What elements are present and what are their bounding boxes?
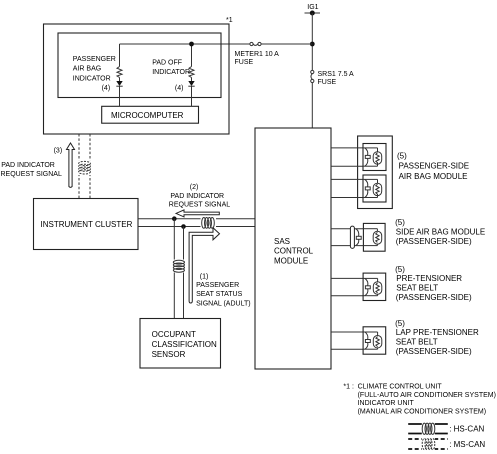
svg-text:: HS-CAN: : HS-CAN [449,425,484,434]
svg-text:REQUEST SIGNAL: REQUEST SIGNAL [1,171,62,178]
svg-text:INDICATOR: INDICATOR [73,75,111,82]
wire IG1 vertical feed [311,13,313,128]
svg-text:PAD OFF: PAD OFF [152,59,182,66]
svg-text:SENSOR: SENSOR [152,350,186,359]
svg-text:INDICATOR UNIT: INDICATOR UNIT [358,400,415,407]
label passenger-side air bag module [397,151,469,181]
label pre-tensioner seat belt [395,265,472,302]
svg-text:INDICATOR: INDICATOR [152,69,190,76]
svg-text:SEAT STATUS: SEAT STATUS [196,291,242,298]
svg-text:(PASSENGER-SIDE): (PASSENGER-SIDE) [396,237,472,246]
wire SAS to squib1 bottom [331,165,363,167]
node IG1 label [307,4,318,11]
label (2) PAD INDICATOR REQUEST SIGNAL [169,184,230,209]
wire SAS to pre-tensioner bottom [331,295,363,297]
svg-text:(5): (5) [395,218,405,227]
svg-text:(PASSENGER-SIDE): (PASSENGER-SIDE) [396,347,472,356]
squib side air bag module [363,223,385,251]
svg-text:(1): (1) [200,273,209,280]
legend MS-CAN wires [408,439,448,449]
arrow (2) pad indicator request [176,210,219,217]
wire SAS to pre-tensioner top [331,277,363,279]
svg-text:CONTROL: CONTROL [274,247,314,256]
svg-text:*1: *1 [226,17,233,24]
wire METER1 feed horizontal [120,43,313,45]
LED passenger air bag indicator diode [116,81,122,86]
legend MS-CAN twisted pair symbol [422,437,435,451]
squib air bag module inflator 2 [363,175,386,202]
fuse METER1 10 A [250,42,261,45]
svg-text:(PASSENGER-SIDE): (PASSENGER-SIDE) [396,293,472,302]
box SAS CONTROL MODULE [255,128,331,369]
svg-text:PRE-TENSIONER: PRE-TENSIONER [396,274,462,283]
wire right indicator branch [191,44,193,106]
label PASSENGER AIR BAG INDICATOR [73,56,116,92]
svg-text:PAD INDICATOR: PAD INDICATOR [1,162,55,169]
svg-text:FUSE: FUSE [318,79,337,86]
label side air bag module [395,218,485,246]
shorting clip side air bag [356,229,361,246]
junction dot at METER1 branch [310,42,315,47]
label PAD OFF INDICATOR [152,59,190,92]
svg-text:(5): (5) [397,151,407,160]
svg-text:SEAT BELT: SEAT BELT [396,284,438,293]
svg-text:(3): (3) [54,148,63,155]
wire cluster to SAS top (CAN) [138,218,255,220]
wire vertical pair to occupant sensor left [173,219,175,319]
junction dot bottom CAN wire [181,224,186,229]
svg-text:(5): (5) [395,319,405,328]
box INSTRUMENT CLUSTER [34,199,139,250]
svg-text:(MANUAL AIR CONDITIONER SYSTEM: (MANUAL AIR CONDITIONER SYSTEM) [358,408,486,415]
wire dashed pair climate unit to cluster [79,134,90,199]
svg-text:CLIMATE CONTROL UNIT: CLIMATE CONTROL UNIT [358,384,443,391]
wire SAS to lap pre-tensioner top [331,331,363,333]
wire SAS to squib2 top [331,178,363,180]
svg-text:: MS-CAN: : MS-CAN [449,440,485,449]
svg-text:OCCUPANT: OCCUPANT [152,330,196,339]
box passenger-side air bag module outer [358,136,393,209]
note *1 climate control unit [343,384,496,416]
label PAD INDICATOR REQUEST SIGNAL left [1,162,62,178]
svg-text:SIDE AIR BAG MODULE: SIDE AIR BAG MODULE [396,227,485,236]
twisted pair symbol on sensor wires [171,260,186,273]
svg-text:(2): (2) [190,184,199,191]
svg-text:(4): (4) [102,85,111,92]
svg-text:MICROCOMPUTER: MICROCOMPUTER [111,111,184,120]
svg-text:SAS: SAS [274,237,290,246]
svg-text:PASSENGER-SIDE: PASSENGER-SIDE [399,162,470,171]
svg-text:METER1 10 A: METER1 10 A [235,51,280,58]
arrow (3) signal up [67,143,75,187]
svg-text:REQUEST SIGNAL: REQUEST SIGNAL [169,202,230,209]
box OCCUPANT CLASSIFICATION SENSOR [140,319,221,369]
fuse SRS1 7.5 A [311,70,314,82]
svg-text:PASSENGER: PASSENGER [196,282,239,289]
LED pad off indicator diode [188,81,194,86]
svg-text:SEAT BELT: SEAT BELT [396,338,438,347]
arrow (1) passenger seat status [189,228,219,303]
wire vertical pair to occupant sensor right [183,227,185,319]
svg-text:INSTRUMENT CLUSTER: INSTRUMENT CLUSTER [41,220,133,229]
svg-text:IG1: IG1 [307,4,318,11]
wire SAS to lap pre-tensioner bottom [331,348,363,350]
legend HS-CAN wires [408,424,448,434]
label (1) PASSENGER SEAT STATUS SIGNAL [196,273,250,307]
connector side air bag module [350,226,354,248]
wire SAS to side air bag top [331,228,363,230]
squib pre-tensioner seat belt [363,273,386,300]
svg-text:(4): (4) [175,85,184,92]
svg-text:AIR BAG: AIR BAG [73,66,101,73]
label METER1 fuse [235,51,280,66]
svg-text:MODULE: MODULE [274,256,308,265]
svg-text:LAP PRE-TENSIONER: LAP PRE-TENSIONER [396,328,479,337]
wire cluster to SAS bottom (CAN) [138,226,255,228]
wire SAS to side air bag bottom [331,245,363,247]
svg-text:PAD INDICATOR: PAD INDICATOR [170,193,224,200]
junction dot top CAN wire [172,216,177,221]
box climate control unit *1 [44,24,230,134]
squib air bag module inflator 1 [363,144,386,171]
svg-text:PASSENGER: PASSENGER [73,56,116,63]
wire left indicator branch [119,44,121,106]
squib lap pre-tensioner seat belt [363,327,386,354]
legend HS-CAN twisted pair symbol [422,422,435,436]
svg-text:(FULL-AUTO AIR CONDITIONER SYS: (FULL-AUTO AIR CONDITIONER SYSTEM) [358,392,496,399]
wire SAS to squib1 top [331,147,363,149]
resistor passenger air bag indicator [117,67,122,78]
label SRS1 fuse [318,71,355,86]
svg-text:(5): (5) [395,265,405,274]
node IG1 terminal [305,11,321,16]
twisted pair symbol on CAN wires [201,217,217,230]
svg-text:SRS1 7.5 A: SRS1 7.5 A [318,71,355,78]
junction dot right branch [189,42,194,47]
svg-text:*1 :: *1 : [343,384,354,391]
svg-text:AIR BAG MODULE: AIR BAG MODULE [399,172,468,181]
twisted pair symbol on dashed pair [72,161,98,176]
resistor pad off indicator [189,67,194,78]
box MICROCOMPUTER [102,106,199,123]
wire SAS to squib2 bottom [331,197,363,199]
svg-text:SIGNAL (ADULT): SIGNAL (ADULT) [196,300,250,307]
svg-text:CLASSIFICATION: CLASSIFICATION [152,340,217,349]
label lap pre-tensioner seat belt [395,319,479,356]
box indicator panel inner [58,33,221,98]
svg-text:FUSE: FUSE [235,59,254,66]
